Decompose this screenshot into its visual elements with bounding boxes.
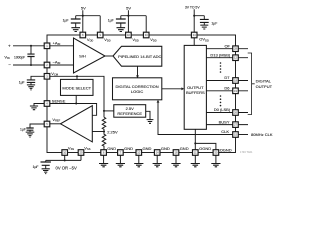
node ellipsis upper <box>220 62 222 73</box>
svg-text:GND: GND <box>161 146 170 151</box>
svg-text:11: 11 <box>194 151 197 155</box>
svg-text:18: 18 <box>234 79 237 83</box>
capacitor C1 1uF <box>63 16 81 28</box>
block 2.5V reference <box>114 105 146 118</box>
pin 9 VDD <box>97 32 103 38</box>
wire BUSY row <box>206 124 248 126</box>
wire 5V supply 1 <box>76 10 101 32</box>
wire mode select bottom stub to SENSE line <box>75 95 77 103</box>
svg-text:27: 27 <box>234 123 237 127</box>
svg-text:1µF: 1µF <box>33 165 39 169</box>
wire -AIN input <box>13 64 44 66</box>
svg-text:OF: OF <box>224 43 230 48</box>
ground for C2 <box>117 28 126 32</box>
ground for SENSE <box>30 106 38 110</box>
node junction dot OVDD <box>193 15 195 17</box>
node dot rail at reference <box>103 110 105 112</box>
wire VCM external to cap <box>31 76 44 80</box>
block U1 pipelined 14-bit ADC <box>113 46 162 66</box>
svg-text:1µF: 1µF <box>108 19 114 23</box>
svg-text:5V: 5V <box>81 5 86 10</box>
pin 4 SENSE <box>44 101 50 107</box>
node dot mode select top <box>76 75 78 77</box>
pin 30 OGND <box>213 150 219 156</box>
pin 18b GND <box>173 150 179 156</box>
svg-text:GND: GND <box>180 146 189 151</box>
pin 10b GND <box>136 150 142 156</box>
svg-text:GND: GND <box>107 146 116 151</box>
svg-text:0V OR −5V: 0V OR −5V <box>56 166 78 171</box>
capacitor C2 1uF <box>108 16 126 28</box>
node junction dot supply 1 <box>82 15 84 17</box>
ground for C1 <box>71 28 80 32</box>
pin 29 VSS <box>78 150 84 156</box>
svg-text:D13 (MSB): D13 (MSB) <box>210 52 230 57</box>
svg-text:32: 32 <box>127 33 130 37</box>
node digital output bracket <box>248 53 255 115</box>
wire OGND riser from output buffers <box>195 129 216 149</box>
node dot OGND riser <box>194 142 196 144</box>
svg-text:34: 34 <box>193 33 196 37</box>
wire -AIN to S/H <box>50 64 74 66</box>
pin 18 D7 <box>233 78 239 84</box>
wire OF row <box>206 48 248 50</box>
svg-text:BUFFERS: BUFFERS <box>186 90 205 95</box>
pin 26 D0 <box>233 110 239 116</box>
svg-text:D0 (LSB): D0 (LSB) <box>214 107 231 112</box>
capacitor CIN 1000pF <box>27 46 34 65</box>
ground for pin 30 <box>211 155 220 167</box>
svg-text:10: 10 <box>137 151 140 155</box>
svg-text:28: 28 <box>234 47 237 51</box>
wire reference to rail <box>104 110 114 112</box>
node dot on +AIN at CIN <box>30 45 32 47</box>
wire SENSE internal <box>50 104 97 116</box>
resistor R2 <box>102 132 106 150</box>
svg-text:26: 26 <box>234 111 237 115</box>
wire 5V supply 2 <box>121 10 146 32</box>
wire D0 row <box>206 112 248 114</box>
svg-text:S/H: S/H <box>79 54 86 59</box>
ground for C6 <box>42 169 50 174</box>
svg-text:1000pF: 1000pF <box>14 55 25 59</box>
svg-text:CLK: CLK <box>221 129 229 134</box>
wire ADC to correction logic arrow <box>136 66 139 78</box>
pin 5 VREF <box>44 121 50 127</box>
wire +AIN to S/H <box>50 45 74 47</box>
svg-text:1µF: 1µF <box>211 21 217 25</box>
pin 32 VDD <box>126 32 132 38</box>
svg-text:OGND: OGND <box>220 147 232 152</box>
svg-text:15: 15 <box>234 133 237 137</box>
svg-text:LOGIC: LOGIC <box>131 89 144 94</box>
svg-text:REFERENCE: REFERENCE <box>117 111 142 116</box>
pin 12 D13 <box>233 55 239 61</box>
svg-text:MODE SELECT: MODE SELECT <box>62 85 91 90</box>
svg-text:D7: D7 <box>224 75 230 80</box>
node ellipsis lower <box>220 95 222 106</box>
svg-text:29: 29 <box>80 151 83 155</box>
svg-text:OUTPUT: OUTPUT <box>256 84 273 89</box>
pin 33 VDD <box>143 32 149 38</box>
resistor R1 <box>102 117 106 131</box>
pin 6 GND <box>101 150 107 156</box>
ground for pin 7 <box>116 155 125 167</box>
svg-text:−: − <box>8 63 11 68</box>
ground for C3 <box>200 25 208 29</box>
ground for pin 6 <box>99 155 108 167</box>
svg-text:+: + <box>8 44 11 49</box>
svg-text:1µF: 1µF <box>19 80 25 84</box>
svg-text:18: 18 <box>175 151 178 155</box>
wire OVDD supply <box>194 9 204 32</box>
pin 14 GND <box>154 150 160 156</box>
op-amp S/H <box>74 38 106 73</box>
svg-text:GND: GND <box>124 146 133 151</box>
wire mode select top stub to VCM line <box>76 76 78 79</box>
wire SENSE external to ground <box>34 104 44 106</box>
node dot mode select bottom <box>75 102 77 104</box>
wire CLK external <box>238 134 248 136</box>
ground for reference <box>147 120 154 124</box>
ground for pin 10 <box>134 155 143 167</box>
op-amp reference buffer <box>61 106 93 142</box>
wire buffer output to VREF pin <box>50 123 61 125</box>
pin 2 -AIN <box>44 62 50 68</box>
block digital correction logic <box>113 78 162 100</box>
capacitor C6 1uF on VSS <box>33 160 51 168</box>
wire CLK row and up into correction logic arrow <box>157 100 233 135</box>
capacitor C5 1uF on VREF <box>20 128 34 132</box>
wire tap to buffer input <box>92 131 104 133</box>
svg-text:1µF: 1µF <box>63 19 69 23</box>
svg-text:GND: GND <box>143 146 152 151</box>
node dot VSS <box>64 159 66 161</box>
svg-text:D6: D6 <box>224 86 230 91</box>
wire reference right to ground <box>146 111 150 119</box>
wire D6 row <box>206 90 248 92</box>
wire VSS supply <box>46 155 81 160</box>
svg-text:2.25V: 2.25V <box>107 130 118 135</box>
ground for C4 <box>27 85 35 90</box>
pin 8 VDD <box>80 32 86 38</box>
svg-text:30: 30 <box>214 151 217 155</box>
pin 27 BUSY <box>233 122 239 128</box>
wire +AIN input <box>13 45 44 47</box>
wire S/H to ADC <box>105 55 113 57</box>
pin 7 GND <box>118 150 124 156</box>
ground for pin 14 <box>153 155 162 167</box>
capacitor C3 1uF <box>200 16 217 26</box>
svg-text:80MHz CLK: 80MHz CLK <box>251 132 273 137</box>
svg-text:1µF: 1µF <box>20 128 26 132</box>
capacitor C4 1uF on VCM <box>19 80 36 85</box>
ground for C5 <box>26 132 35 137</box>
svg-text:BUSY: BUSY <box>219 119 230 124</box>
pin 1 +AIN <box>44 43 50 49</box>
svg-text:12: 12 <box>234 56 237 60</box>
svg-text:10: 10 <box>63 151 66 155</box>
svg-text:14: 14 <box>156 151 159 155</box>
pin 3 VCM <box>44 74 50 80</box>
chip outline <box>47 35 236 153</box>
pin 15 CLK <box>233 132 239 138</box>
wire VREF external to cap <box>30 124 44 128</box>
wire VCM rail <box>50 76 104 117</box>
svg-text:OGND: OGND <box>199 146 211 151</box>
svg-text:5V: 5V <box>126 5 131 10</box>
pin 28 OF <box>233 46 239 52</box>
wire D7 row <box>206 80 248 82</box>
node junction dot supply 2 <box>127 15 129 17</box>
block output buffers <box>184 45 206 129</box>
svg-text:SENSE: SENSE <box>52 99 66 104</box>
svg-text:3V TO 5V: 3V TO 5V <box>185 5 201 9</box>
wire D13 row <box>206 57 248 59</box>
node dot divider tap <box>103 130 105 132</box>
ground for pin 18 <box>171 155 180 167</box>
node dot on -AIN at CIN <box>30 64 32 66</box>
svg-text:1746 TA01: 1746 TA01 <box>240 150 253 154</box>
svg-text:33: 33 <box>145 33 148 37</box>
pin 19 D6 <box>233 88 239 94</box>
wire OVDD to output buffers <box>193 38 195 46</box>
pin 10 VSS <box>62 150 68 156</box>
svg-text:PIPELINED 14-BIT ADC: PIPELINED 14-BIT ADC <box>118 54 161 59</box>
block mode select <box>61 79 94 95</box>
ground for pin 11 <box>191 155 200 167</box>
pin 11 OGND <box>193 150 199 156</box>
pin 34 OVDD <box>191 32 197 38</box>
svg-text:19: 19 <box>234 89 237 93</box>
wire correction logic to output buffers arrow <box>162 87 184 90</box>
